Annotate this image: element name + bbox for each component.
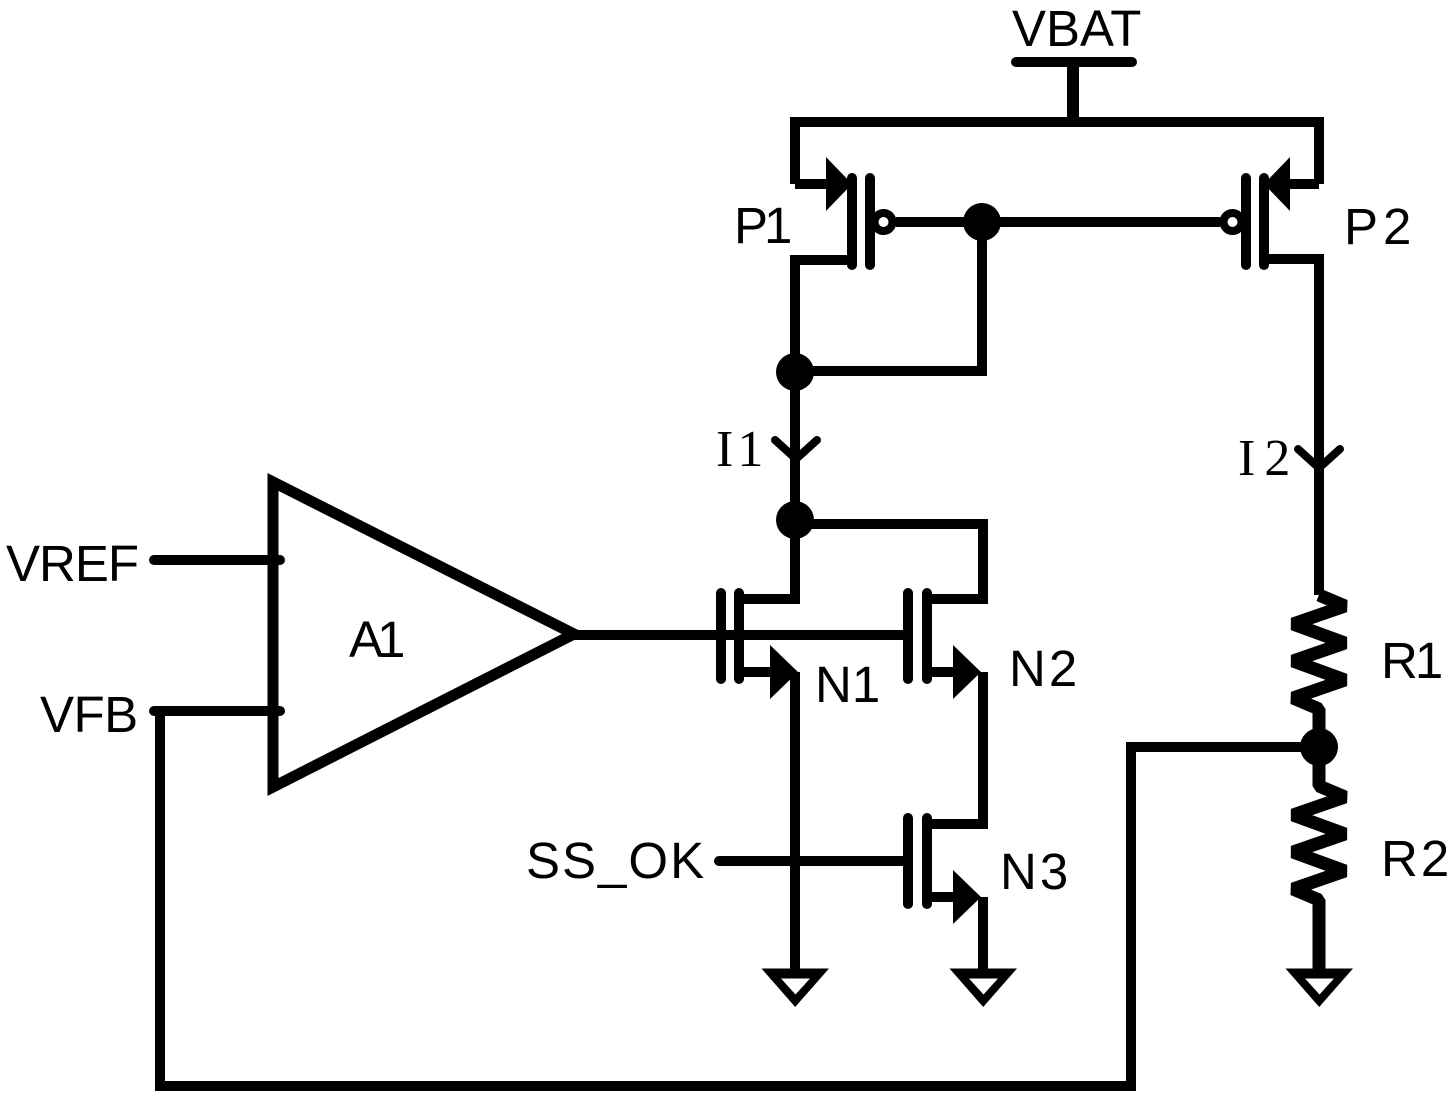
transistor P1 source arrow	[826, 157, 852, 211]
wire node to N1 drain	[739, 520, 795, 599]
wire VBAT top rail	[795, 122, 1319, 184]
wire VBAT stem	[1067, 60, 1079, 122]
node gate junction	[963, 203, 1001, 241]
transistor P1 gate bubble	[875, 213, 893, 231]
svg-text:I2: I2	[1238, 430, 1299, 487]
svg-text:R2: R2	[1381, 830, 1452, 887]
transistor P1 gate bar	[865, 178, 875, 265]
transistor N3 channel bar	[922, 818, 932, 904]
transistor P1 drain wire	[795, 260, 852, 372]
wire VREF input	[154, 555, 280, 565]
svg-text:N2: N2	[1009, 640, 1080, 697]
node P1 drain junction	[776, 353, 814, 391]
transistor N3 source wire	[927, 892, 955, 902]
ground under R2	[1286, 969, 1354, 1008]
wire VFB input	[154, 706, 280, 716]
transistor P2 channel bar	[1259, 178, 1269, 265]
current arrow I2	[1298, 449, 1340, 468]
wire feedback loop	[160, 711, 1319, 1086]
node N1 drain branch junction	[776, 501, 814, 539]
transistor P1 source wire	[795, 179, 830, 189]
svg-text:A1: A1	[349, 611, 403, 668]
wire N1 source to ground	[790, 672, 800, 974]
op-amp A1 triangle	[273, 482, 574, 787]
transistor N3 source arrow	[953, 870, 981, 924]
svg-text:VBAT: VBAT	[1012, 0, 1141, 57]
transistor N2 channel bar	[922, 593, 932, 679]
wire gate net P1-P2	[896, 217, 1220, 227]
transistor N2 source wire	[927, 667, 955, 677]
svg-text:SS_OK: SS_OK	[526, 832, 706, 889]
transistor N3 gate bar	[903, 818, 913, 904]
wire node to N2 drain	[795, 524, 983, 599]
wire N3 source to ground	[978, 897, 988, 974]
node R1 R2 junction	[1300, 728, 1338, 766]
transistor N2 gate bar	[903, 593, 913, 679]
wire gate to drain tie	[795, 222, 982, 371]
transistor P2 source wire	[1290, 179, 1319, 189]
transistor N2 source arrow	[953, 645, 981, 699]
transistor N1 source wire	[739, 667, 772, 677]
transistor P2 source arrow	[1264, 157, 1290, 211]
transistor P2 gate bubble	[1224, 213, 1242, 231]
wire A1 output to gates	[574, 630, 905, 640]
power VBAT bar	[1016, 57, 1132, 67]
transistor N1 gate bar	[716, 593, 726, 679]
ground under N3	[950, 969, 1018, 1008]
wire N2 source to N3 drain	[927, 672, 983, 824]
svg-text:P1: P1	[734, 197, 790, 254]
svg-text:N3: N3	[1000, 843, 1071, 900]
svg-text:P2: P2	[1344, 198, 1416, 255]
transistor P1 channel bar	[847, 178, 857, 265]
svg-text:I1: I1	[716, 421, 767, 478]
transistor N1 source arrow	[770, 645, 798, 699]
transistor N1 channel bar	[734, 593, 744, 679]
resistor R1	[1293, 595, 1345, 747]
wire SS_OK input	[719, 856, 903, 866]
svg-text:VREF: VREF	[6, 535, 138, 592]
transistor P2 drain wire	[1264, 259, 1319, 595]
transistor P2 gate bar	[1241, 178, 1251, 265]
current arrow I1	[775, 440, 817, 459]
svg-text:N1: N1	[815, 656, 880, 713]
svg-text:VFB: VFB	[40, 686, 138, 743]
wire I1 branch	[790, 372, 800, 520]
resistor R2	[1293, 747, 1345, 974]
ground under N1	[762, 969, 830, 1008]
svg-text:R1: R1	[1381, 632, 1441, 689]
